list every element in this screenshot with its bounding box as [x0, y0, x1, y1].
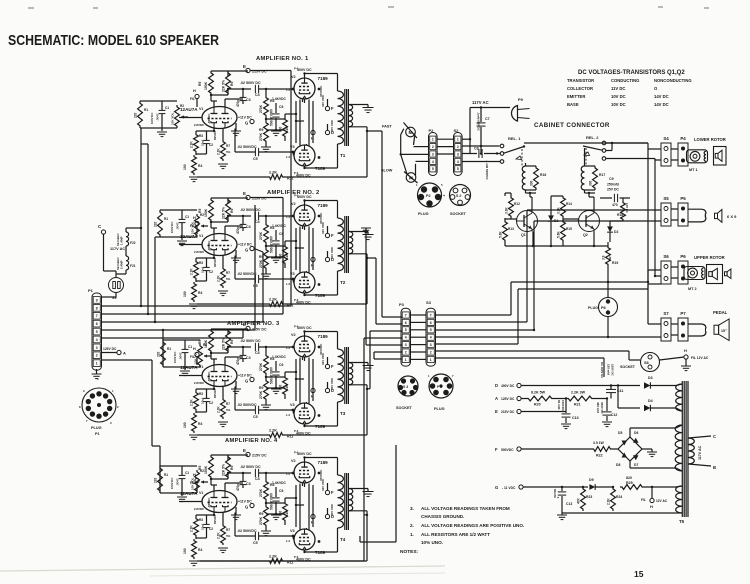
amplifier 2: wire plate to R5: [211, 226, 243, 234]
amplifier 1: wire cathodes: [303, 100, 307, 146]
svg-text:Q2: Q2: [583, 233, 588, 237]
diode D2: [607, 224, 618, 237]
amplifier 4 input: ground: [177, 497, 187, 502]
plug P2 face: [416, 183, 445, 216]
amplifier 2: resistor R7 2.2K 5%: [217, 256, 231, 289]
svg-text:5: 5: [96, 330, 98, 334]
amplifier 3: resistor R5 150K: [198, 329, 213, 353]
svg-text:R21: R21: [574, 403, 581, 407]
amplifier 3: resistor R6 22K 5%: [222, 329, 235, 353]
wire speaker bus 2: [654, 159, 661, 278]
svg-text:V2: V2: [291, 202, 296, 206]
svg-text:2.8VDC: 2.8VDC: [194, 381, 205, 385]
note heading: [400, 549, 419, 555]
amplifier 1: secondary bottom lead: [349, 126, 367, 128]
svg-text:P-6: P-6: [294, 451, 299, 455]
motor M fast: [382, 123, 417, 139]
svg-text:D9: D9: [589, 478, 594, 482]
svg-text:150K: 150K: [204, 81, 208, 90]
wire filament rail: [562, 512, 676, 514]
svg-text:350V DC: 350V DC: [600, 402, 604, 415]
svg-text:1-2: 1-2: [286, 539, 290, 543]
svg-text:1-2: 1-2: [286, 472, 290, 476]
svg-text:1.4KVDC: 1.4KVDC: [272, 97, 287, 101]
table row emitter: [567, 94, 669, 99]
amplifier 3 input: wire input top: [163, 339, 200, 341]
svg-text:6: 6: [430, 321, 432, 325]
svg-text:3: 3: [457, 152, 459, 156]
connector P6: [678, 254, 688, 284]
svg-text:1-2: 1-2: [286, 215, 290, 219]
amplifier 1: label 1.4KVDC: [272, 97, 287, 101]
amplifier 2: ground below R4: [189, 304, 199, 309]
amplifier 4: screen junction: [285, 484, 305, 507]
svg-text:E: E: [243, 64, 246, 69]
svg-text:P7: P7: [680, 311, 686, 316]
svg-text:7: 7: [405, 313, 407, 317]
transformer T5 primary 117V AC: [688, 436, 711, 466]
svg-text:.0047: .0047: [176, 222, 180, 230]
connector P1 label: [88, 288, 94, 293]
amplifier 1: wire R5/R6 bottoms: [211, 89, 251, 101]
amplifier 3: junction dots: [210, 330, 321, 427]
svg-text:9: 9: [96, 298, 98, 302]
amplifier 2: ground right of tube: [231, 250, 241, 263]
amplifier 3: tube V3 7189: [286, 403, 326, 436]
svg-text:C13: C13: [566, 502, 572, 506]
svg-text:2.2K: 2.2K: [217, 406, 221, 413]
resistor R25 820: [620, 476, 676, 489]
amplifier 3 input: wire bottoms: [163, 367, 200, 370]
svg-text:R3: R3: [199, 392, 203, 396]
svg-text:-60VDC: -60VDC: [207, 240, 211, 251]
svg-text:P 3: P 3: [437, 385, 442, 389]
speaker horn upper rotor 2: [725, 269, 731, 279]
svg-text:P-6: P-6: [294, 429, 299, 433]
svg-text:P-6: P-6: [294, 298, 299, 302]
svg-text:R2: R2: [180, 104, 184, 108]
amplifier 2: wire E/B+ rail: [211, 198, 248, 203]
svg-text:P4: P4: [680, 136, 686, 141]
wire S3 pin4 to S7: [436, 336, 662, 338]
amplifier 2: junction dots: [210, 199, 321, 296]
amplifier 1: resistor R8 270K: [259, 89, 274, 117]
amplifier 1: wire grid input: [179, 117, 202, 119]
svg-text:2.2K: 2.2K: [607, 498, 611, 505]
amplifier 2: ground at secondary: [363, 235, 374, 240]
amplifier 3: wire plate to R5: [211, 357, 243, 365]
svg-text:COLLECTOR: COLLECTOR: [567, 86, 593, 91]
svg-text:R3: R3: [199, 261, 203, 265]
amplifier 1: wire plate to R5: [211, 99, 243, 107]
amplifier 3: wire cathodes: [303, 358, 307, 404]
svg-text:-60VDC: -60VDC: [207, 497, 211, 508]
amplifier 1: label 300VDC: [319, 85, 323, 97]
svg-text:C5: C5: [253, 415, 258, 419]
amplifier 2: capacitor C5 .02 500VDC: [235, 256, 293, 289]
svg-text:4: 4: [405, 336, 407, 340]
svg-text:AMPLIFIER NO. 4: AMPLIFIER NO. 4: [225, 438, 278, 444]
amplifier 1: tube V3 7189: [286, 145, 326, 178]
svg-text:.02 500VDC: .02 500VDC: [237, 529, 257, 533]
svg-text:.02 500V DC: .02 500V DC: [240, 208, 261, 212]
junction C7 bottom: [480, 152, 482, 154]
amplifier 3 input: capacitor C1 .0047: [173, 340, 192, 367]
amplifier 3: terminal F: [321, 352, 334, 369]
transformer T5 core: [682, 381, 688, 517]
svg-text:R11: R11: [287, 435, 293, 439]
svg-text:NOTES:: NOTES:: [400, 549, 419, 555]
amplifier 4: tube V1 12AU7A: [180, 491, 237, 513]
svg-text:100V DC: 100V DC: [150, 113, 154, 124]
amplifier 4: wire feedback run: [197, 511, 368, 561]
amplifier 2: label 2.8VDC: [194, 240, 217, 267]
svg-text:R3: R3: [199, 518, 203, 522]
svg-text:1: 1: [430, 358, 432, 362]
amplifier 3: terminal E 215V DC: [243, 322, 267, 332]
svg-text:T2: T2: [340, 280, 346, 285]
motor MT1: [687, 150, 708, 172]
wire amp4 output to P3 pin4: [364, 338, 402, 515]
ground below C10: [561, 424, 571, 429]
amplifier 4: transformer T4 secondary: [349, 489, 353, 511]
amplifier 4: ground at secondary: [363, 492, 374, 497]
amplifier 4: terminal E 215V DC: [243, 448, 267, 458]
svg-text:+11V DC: +11V DC: [238, 500, 252, 504]
amplifier 4 input: resistor R1 220: [154, 466, 169, 493]
svg-text:DC 400V DC: DC 400V DC: [600, 362, 604, 378]
connector P5: [678, 196, 688, 226]
amplifier 1: tube V1 12AU7A: [180, 107, 237, 129]
wires S6-P6: [671, 267, 678, 278]
svg-text:125V DC: 125V DC: [501, 397, 515, 401]
wire transistor rails: [505, 193, 608, 247]
svg-text:F: F: [331, 364, 334, 369]
amplifier 3: wire screens: [296, 358, 313, 404]
svg-text:1-2: 1-2: [286, 155, 290, 159]
svg-text:1W: 1W: [285, 511, 289, 516]
amplifier 2: secondary bottom lead: [349, 253, 367, 255]
amplifier 2: wire grid input: [179, 244, 202, 246]
svg-text:400 VDC: 400 VDC: [330, 503, 334, 516]
amplifier 3: ground below C6: [271, 389, 281, 394]
svg-text:10K VOL: 10K VOL: [171, 112, 175, 125]
amplifier 4: junction dots: [210, 456, 321, 553]
amplifier 3: transformer label T3: [340, 411, 346, 416]
bridge rectifier D5-D8: [612, 431, 642, 467]
svg-text:G: G: [245, 379, 248, 384]
ground below C12: [602, 422, 612, 427]
svg-text:5%: 5%: [226, 534, 231, 538]
svg-text:-60VDC: -60VDC: [207, 113, 211, 124]
amplifier 3: resistor R7 2.2K 5%: [217, 387, 231, 420]
svg-text:D1: D1: [554, 219, 558, 223]
svg-text:R13: R13: [508, 227, 514, 231]
wire S3 pin3 to S6: [436, 284, 662, 344]
amplifier 1: ground below C6: [271, 131, 281, 136]
svg-text:4: 4: [432, 160, 434, 164]
svg-text:R4: R4: [198, 164, 202, 168]
amplifier 1: wire E/B+ rail: [211, 71, 248, 76]
ground below P1: [92, 369, 102, 379]
svg-text:10K VOL: 10K VOL: [191, 477, 195, 490]
svg-text:14V DC: 14V DC: [625, 203, 629, 213]
wire bridge to ground: [642, 449, 657, 457]
diode D4: [618, 386, 676, 412]
svg-text:Q1: Q1: [521, 233, 526, 237]
svg-text:FIL: FIL: [190, 97, 195, 101]
svg-text:F21: F21: [130, 264, 136, 268]
svg-text:10uf: 10uf: [201, 267, 205, 273]
svg-text:E: E: [243, 448, 246, 453]
svg-text:320 VDC: 320 VDC: [321, 94, 325, 107]
svg-text:22K 5%: 22K 5%: [222, 207, 226, 219]
amplifier 1 input: resistor R1 220: [134, 101, 149, 128]
svg-text:R23: R23: [586, 495, 592, 499]
svg-text:400V DC: 400V DC: [297, 68, 312, 72]
svg-text:G: G: [495, 485, 498, 490]
relay REL1 label: [508, 136, 521, 141]
diode D3: [604, 376, 676, 389]
amplifier 3: resistor R11 2.2K feedback: [268, 429, 293, 439]
svg-text:3: 3: [430, 343, 432, 347]
amplifier 3: transformer T3 secondary: [349, 363, 353, 385]
svg-text:470: 470: [612, 203, 618, 207]
svg-text:220: 220: [134, 112, 138, 118]
amplifier 4: resistor 330 1W: [279, 502, 290, 522]
svg-text:R7: R7: [226, 271, 230, 275]
transformer T5 winding 2: [675, 425, 682, 471]
svg-text:D4: D4: [648, 399, 653, 403]
table row base: [567, 102, 669, 107]
svg-text:14V DC: 14V DC: [654, 102, 669, 107]
svg-text:R22: R22: [596, 454, 603, 458]
svg-text:SOCKET: SOCKET: [396, 406, 413, 410]
svg-text:4: 4: [457, 160, 459, 164]
ground on bus: [361, 228, 371, 236]
svg-text:.02 500VDC: .02 500VDC: [237, 403, 257, 407]
svg-text:SCHEMATIC: MODEL 610 SPEAKE: SCHEMATIC: MODEL 610 SPEAKER: [8, 32, 219, 49]
svg-text:R12: R12: [514, 202, 520, 206]
plug P3 face: [428, 374, 454, 411]
svg-text:2.2K: 2.2K: [269, 429, 277, 433]
svg-text:C3: C3: [246, 98, 251, 102]
resistor R20 8.2K 5W: [526, 391, 554, 407]
fuse F22 1AMP SLO-BLO: [116, 232, 136, 246]
svg-text:100: 100: [183, 548, 187, 554]
table row collector: [567, 86, 658, 91]
amplifier 1: ground at secondary: [363, 108, 374, 113]
svg-text:C1: C1: [188, 345, 192, 349]
amplifier 1: capacitor C2 10uf: [201, 133, 214, 151]
svg-text:2.2K: 2.2K: [217, 148, 221, 155]
amplifier 3: wire feedback run: [197, 385, 368, 435]
svg-text:5%: 5%: [226, 150, 231, 154]
amplifier 3: ground below R4: [189, 435, 199, 440]
amplifier 3 input: pot wiper arrow: [204, 354, 211, 357]
motor M slow leads: [401, 154, 429, 176]
wire amp4 input feed: [102, 360, 161, 493]
amplifier 4: label 2.8VDC: [194, 497, 217, 524]
connector strip S2: [454, 133, 463, 176]
amplifier 1 input: potentiometer R2 10K VOL: [171, 104, 185, 128]
amplifier 3: wire cathode: [196, 387, 214, 414]
svg-text:P2: P2: [426, 194, 431, 198]
svg-text:.0047: .0047: [179, 352, 183, 360]
svg-text:PLUG: PLUG: [588, 306, 598, 310]
amplifier 1: ground below R9: [261, 147, 271, 152]
svg-text:LOWER ROTOR: LOWER ROTOR: [694, 137, 726, 142]
svg-text:.1 mfd 600VDC: .1 mfd 600VDC: [485, 160, 489, 180]
amplifier 3: label 300VDC: [319, 343, 323, 355]
svg-text:3.9 1W: 3.9 1W: [593, 441, 605, 445]
svg-text:220: 220: [154, 477, 158, 483]
svg-text:2.2K: 2.2K: [190, 141, 194, 148]
amplifier 4: resistor R8 270K: [259, 473, 274, 501]
transformer T5 winding 1: [676, 384, 682, 411]
svg-text:.02 500VDC: .02 500VDC: [237, 272, 257, 276]
connector strip P2: [429, 133, 438, 176]
svg-text:E: E: [243, 322, 246, 327]
svg-text:5: 5: [432, 167, 434, 171]
amplifier 1: resistor R6 22K 5%: [222, 71, 235, 95]
amplifier 3: wire E/B+ rail: [211, 329, 248, 334]
amplifier 1: terminal F: [321, 94, 334, 111]
amplifier 3: label P-6: [294, 325, 299, 434]
svg-text:D8: D8: [616, 463, 620, 467]
svg-text:C4: C4: [255, 477, 260, 481]
svg-text:B: B: [713, 465, 716, 470]
title text: [8, 32, 219, 49]
svg-text:D5: D5: [618, 431, 622, 435]
svg-text:UPPER ROTOR: UPPER ROTOR: [694, 255, 725, 260]
svg-text:4: 4: [96, 338, 98, 342]
svg-text:5: 5: [405, 328, 407, 332]
svg-text:320 VDC: 320 VDC: [321, 221, 325, 234]
amplifier 2 input: resistor R1 220: [154, 210, 169, 237]
svg-text:H: H: [311, 395, 314, 399]
svg-text:2.2K: 2.2K: [269, 298, 277, 302]
svg-text:460 mfd: 460 mfd: [596, 402, 600, 413]
resistor R21 2.2K 3W: [566, 391, 594, 407]
wire amp4 secondary to PSU: [360, 445, 396, 542]
svg-text:117V AC: 117V AC: [110, 247, 125, 251]
amplifier 3: secondary top to ground: [349, 363, 368, 366]
amplifier 1: ground below R4: [189, 177, 199, 182]
svg-text:8.2K 5W: 8.2K 5W: [531, 391, 546, 395]
svg-text:C3: C3: [246, 225, 251, 229]
amplifier 2 input: ground: [177, 241, 187, 246]
svg-text:270K: 270K: [259, 231, 263, 240]
amplifier 2 input: wire input top: [160, 209, 197, 211]
svg-text:ALL VOLTAGE READINGS TAKEN: ALL VOLTAGE READINGS TAKEN FROM: [421, 506, 510, 511]
svg-text:320 VDC: 320 VDC: [321, 478, 325, 491]
svg-text:3.3K: 3.3K: [557, 207, 561, 214]
amplifier 3: wires R8/R9 node: [266, 372, 285, 405]
terminal A 125V DC: [102, 347, 127, 356]
svg-text:R7: R7: [226, 402, 230, 406]
amplifier 4 input: potentiometer R2 10K VOL: [191, 469, 205, 493]
svg-text:E: E: [495, 409, 498, 414]
svg-text:V3: V3: [290, 529, 295, 533]
terminal FIL 12V AC: [641, 486, 668, 509]
wire amp2 output to P3 pin6: [367, 258, 402, 324]
svg-text:R1: R1: [164, 473, 168, 477]
svg-text:R14: R14: [566, 202, 572, 206]
amplifier 4: resistor R7 2.2K 5%: [217, 513, 231, 545]
transformer label T5: [679, 519, 685, 524]
wire Q1 base: [505, 218, 517, 221]
amplifier 4: terminal H heater: [311, 514, 315, 524]
amplifier 2: wire grids to tubes: [292, 216, 295, 283]
svg-text:2.2K: 2.2K: [217, 275, 221, 282]
capacitor C13 80mfd: [553, 486, 572, 513]
svg-text:R7: R7: [226, 528, 230, 532]
amplifier 4: label P-6: [294, 451, 299, 560]
svg-text:100V DC: 100V DC: [173, 352, 177, 363]
amplifier 2: wire V3 plate to T: [305, 294, 338, 296]
svg-text:S8: S8: [644, 361, 649, 365]
svg-text:T4: T4: [340, 537, 346, 542]
svg-text:R1: R1: [144, 108, 148, 112]
svg-text:R4: R4: [198, 291, 202, 295]
svg-text:10K VOL: 10K VOL: [194, 351, 198, 364]
amplifier 3 input: potentiometer R2 10K VOL: [194, 343, 208, 367]
transformer T5 winding 3: [676, 486, 682, 513]
svg-text:E: E: [243, 191, 246, 196]
resistor R19 3.9 1W: [602, 242, 619, 266]
svg-text:220: 220: [154, 221, 158, 227]
amplifier 3: transformer T3 primary: [338, 349, 344, 402]
speaker horn pedal: [714, 319, 729, 341]
svg-text:C3: C3: [246, 482, 251, 486]
svg-text:-60VDC: -60VDC: [207, 371, 211, 382]
svg-text:6: 6: [96, 322, 98, 326]
wires S5-P5: [671, 209, 678, 220]
svg-text:14V DC: 14V DC: [654, 94, 669, 99]
connector P3 label: [399, 302, 405, 307]
amplifier 1: label 2.8VDC: [194, 113, 217, 140]
amplifier 4 input: wire bottoms: [160, 493, 197, 496]
amplifier 4: ground below R9: [261, 531, 271, 536]
label PEDAL: [713, 310, 728, 315]
wire C to fuses: [104, 228, 142, 277]
amplifier 4: capacitor C6 500mf: [270, 487, 284, 511]
svg-text:P9: P9: [518, 97, 524, 102]
svg-text:R19: R19: [612, 261, 618, 265]
svg-text:7189: 7189: [318, 460, 329, 465]
amplifier 3: label 2.8VDC: [194, 371, 217, 398]
svg-text:150K: 150K: [204, 465, 208, 474]
svg-text:P6: P6: [680, 254, 686, 259]
amplifier 2: tube V1 12AU7A: [180, 234, 237, 256]
svg-text:80 mfd: 80 mfd: [557, 400, 561, 410]
wire 117VAC to P9: [462, 106, 510, 153]
svg-text:PLUG: PLUG: [91, 426, 102, 430]
svg-text:C2: C2: [209, 143, 213, 147]
svg-text:2.8VDC: 2.8VDC: [194, 123, 205, 127]
svg-text:TRANSISTOR: TRANSISTOR: [567, 78, 594, 83]
svg-text:R2: R2: [200, 469, 204, 473]
svg-text:H: H: [193, 89, 196, 93]
amplifier 3: wire V2 plate to T: [305, 332, 338, 336]
amplifier 1: terminal H FIL: [190, 89, 199, 107]
svg-text:S7: S7: [663, 311, 669, 316]
terminal A 125V DC: [495, 396, 526, 401]
svg-text:1-2: 1-2: [286, 282, 290, 286]
svg-text:.0047: .0047: [176, 478, 180, 486]
svg-text:500mf 6WV: 500mf 6WV: [270, 235, 274, 253]
